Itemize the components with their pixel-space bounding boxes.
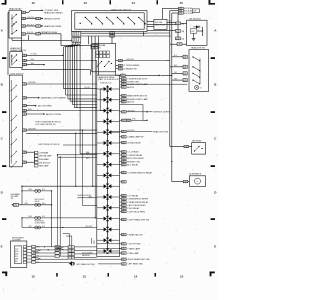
dimmer pin 3 bbox=[22, 63, 26, 65]
svg-text:BLK: BLK bbox=[174, 55, 177, 57]
svg-text:4: 4 bbox=[122, 172, 123, 174]
svg-text:1: 1 bbox=[72, 251, 73, 253]
wire row 131.5 bbox=[110, 131, 122, 133]
relay K1 contact c bbox=[11, 33, 12, 34]
svg-text:4: 4 bbox=[176, 23, 177, 25]
svg-text:C2 TURN FLASHER: C2 TURN FLASHER bbox=[123, 64, 140, 67]
svg-text:1: 1 bbox=[124, 259, 125, 261]
right switch contact 1 bbox=[192, 56, 193, 57]
connector C100 row1 bbox=[72, 32, 81, 37]
svg-text:13: 13 bbox=[83, 275, 87, 279]
svg-text:1: 1 bbox=[121, 65, 122, 67]
wire group vertical bbox=[33, 152, 35, 164]
wire bottom row 1 bbox=[74, 258, 121, 260]
svg-text:C PARK LAMP: C PARK LAMP bbox=[127, 247, 141, 250]
wire y45.6 bbox=[61, 45, 91, 47]
svg-text:1: 1 bbox=[72, 254, 73, 256]
fuse block fuse 4 bbox=[104, 119, 107, 123]
wire x98 drop to fuse block bbox=[97, 36, 99, 75]
svg-text:GRN-WHT: GRN-WHT bbox=[28, 129, 36, 131]
svg-text:4: 4 bbox=[183, 74, 184, 76]
svg-text:4: 4 bbox=[122, 234, 123, 236]
wire into right switch b bbox=[170, 66, 183, 68]
fuse block fuse 1 bbox=[104, 87, 107, 91]
svg-text:4: 4 bbox=[122, 102, 123, 104]
svg-text:14: 14 bbox=[132, 1, 136, 5]
wire vert x22 AB bbox=[21, 186, 23, 205]
svg-text:HEAD RELAY: HEAD RELAY bbox=[9, 7, 22, 10]
svg-text:4: 4 bbox=[122, 152, 123, 154]
left edge dash bbox=[2, 57, 6, 59]
wire relay pin3 bbox=[26, 25, 36, 27]
wire dimmer pin1 long right bbox=[26, 54, 62, 56]
wire note to fuses bbox=[167, 21, 176, 23]
left edge dash bbox=[2, 218, 6, 220]
wire y40 bus bbox=[28, 35, 30, 40]
dimmer contact bbox=[11, 55, 13, 66]
wire into cluster v2 bbox=[93, 241, 95, 244]
svg-text:1: 1 bbox=[124, 182, 125, 184]
svg-text:1: 1 bbox=[124, 102, 125, 104]
turn signal contacts bbox=[96, 66, 97, 67]
wire fuse block right row y164.7 bbox=[122, 164, 127, 166]
svg-text:14: 14 bbox=[134, 275, 138, 279]
wire vertical right bus b bbox=[171, 13, 173, 182]
svg-text:C8 TAIL RELAY: C8 TAIL RELAY bbox=[127, 141, 141, 144]
wire to T1 bbox=[163, 7, 179, 9]
light switch pin r7 bbox=[22, 151, 26, 153]
svg-text:4: 4 bbox=[184, 181, 185, 183]
wire row 120.3 bbox=[122, 119, 127, 121]
fuse row T2 pins bbox=[179, 10, 184, 12]
svg-text:GRN: GRN bbox=[29, 189, 32, 191]
svg-text:4: 4 bbox=[23, 64, 24, 66]
right switch pin b bbox=[183, 65, 187, 68]
fuse block fuse 7 bbox=[104, 152, 107, 156]
svg-text:4: 4 bbox=[119, 65, 120, 67]
svg-text:1: 1 bbox=[124, 253, 125, 255]
right edge dash bbox=[211, 165, 215, 167]
svg-text:1: 1 bbox=[124, 131, 125, 133]
light switch contacts bbox=[10, 80, 12, 164]
wire row 153.8 bbox=[80, 153, 97, 155]
wire row 197.8 bbox=[78, 197, 97, 199]
svg-text:4: 4 bbox=[122, 87, 123, 89]
svg-text:LEFT PARK GND: LEFT PARK GND bbox=[128, 263, 143, 266]
top-left corner crop mark bbox=[2, 3, 7, 5]
wire cross y30.6 bbox=[147, 30, 176, 32]
svg-text:4: 4 bbox=[122, 244, 123, 246]
svg-text:FUSE BLOCK: FUSE BLOCK bbox=[100, 83, 112, 85]
svg-text:4: 4 bbox=[23, 84, 24, 86]
svg-text:1: 1 bbox=[24, 12, 25, 14]
svg-text:GRN: GRN bbox=[89, 196, 92, 198]
svg-text:1: 1 bbox=[72, 247, 73, 249]
svg-text:4: 4 bbox=[22, 12, 23, 14]
wire fuse bus bbox=[177, 14, 179, 22]
tail relay contact bbox=[194, 150, 195, 151]
svg-text:4: 4 bbox=[22, 34, 23, 36]
svg-text:12: 12 bbox=[32, 275, 36, 279]
svg-text:4: 4 bbox=[122, 211, 123, 213]
wire cross y24.6 bbox=[147, 24, 176, 26]
svg-text:1: 1 bbox=[178, 38, 179, 40]
scan speckle background texture bbox=[1, 1, 217, 298]
wire dim long drop bbox=[90, 70, 92, 75]
fuse block fuse 11 bbox=[104, 195, 107, 199]
wire into right switch a bbox=[172, 56, 183, 58]
wire dimmer bottom long bbox=[21, 68, 23, 70]
wire vert x60.2 bbox=[59, 157, 61, 256]
svg-text:RIGHT HEADLIGHT GND: RIGHT HEADLIGHT GND bbox=[128, 258, 151, 261]
svg-text:1: 1 bbox=[25, 114, 26, 116]
wire fuse block right row y202.0 bbox=[122, 201, 127, 203]
svg-text:4: 4 bbox=[183, 57, 184, 59]
wire bottom row 2 bbox=[98, 263, 122, 265]
fuse block FB box bbox=[97, 75, 120, 256]
svg-text:C WINDSHIELD WIPER: C WINDSHIELD WIPER bbox=[127, 199, 149, 201]
svg-text:YEL-BLK: YEL-BLK bbox=[84, 87, 91, 89]
svg-text:RED-BLK: RED-BLK bbox=[27, 24, 35, 26]
wire fuse block right row y84.2 bbox=[122, 83, 127, 85]
svg-text:ACC RELAY: ACC RELAY bbox=[127, 164, 139, 167]
svg-text:ENGINE COMPT LAMP: ENGINE COMPT LAMP bbox=[127, 98, 148, 101]
svg-text:4: 4 bbox=[122, 205, 123, 207]
fuse block fuse 8 bbox=[104, 163, 107, 167]
wire fuse block right row y172.6 bbox=[122, 171, 127, 173]
svg-text:PARKING LIGHTS: PARKING LIGHTS bbox=[44, 17, 60, 20]
svg-text:1: 1 bbox=[186, 80, 187, 82]
light switch pin r2 bbox=[22, 97, 26, 99]
svg-text:4: 4 bbox=[183, 80, 184, 82]
svg-text:4: 4 bbox=[122, 208, 123, 210]
wire cross diag a bbox=[44, 246, 68, 248]
svg-text:C 1-2 RELAY: C 1-2 RELAY bbox=[127, 151, 139, 154]
svg-text:1: 1 bbox=[124, 244, 125, 246]
cluster wire row3 bbox=[36, 252, 69, 254]
svg-text:1: 1 bbox=[187, 146, 188, 148]
svg-text:1: 1 bbox=[186, 74, 187, 76]
headlight switch S1 inner box bbox=[75, 13, 144, 29]
svg-text:BODY DRL RELAY: BODY DRL RELAY bbox=[127, 157, 144, 160]
svg-text:HEADLIGHT SWITCH: HEADLIGHT SWITCH bbox=[111, 8, 131, 11]
svg-text:C ACC RELAY FEED: C ACC RELAY FEED bbox=[127, 204, 146, 207]
wire into cluster v4 bbox=[71, 236, 73, 246]
svg-text:1: 1 bbox=[24, 34, 25, 36]
svg-text:1: 1 bbox=[124, 248, 125, 250]
bottom connector cluster bbox=[68, 246, 71, 249]
svg-text:1: 1 bbox=[25, 152, 26, 154]
cluster inner connector bbox=[14, 246, 21, 264]
right switch rail bbox=[199, 59, 201, 85]
svg-text:1: 1 bbox=[124, 142, 125, 144]
svg-text:(PART OF FUSE BLOCK): (PART OF FUSE BLOCK) bbox=[98, 78, 119, 81]
svg-text:BLK-YEL: BLK-YEL bbox=[27, 32, 34, 34]
wire row 154.8 bbox=[58, 154, 97, 156]
svg-text:C LEFT BULB FEED: C LEFT BULB FEED bbox=[127, 211, 146, 213]
left edge dash bbox=[2, 165, 6, 167]
svg-text:GRN-WHT: GRN-WHT bbox=[126, 59, 134, 61]
svg-text:1: 1 bbox=[124, 120, 125, 122]
svg-text:GRN-RED: GRN-RED bbox=[127, 110, 135, 112]
svg-text:4: 4 bbox=[122, 112, 123, 114]
wire fuse block right row y78.7 bbox=[122, 78, 127, 80]
fuse block fuse 14 bbox=[104, 227, 107, 231]
svg-text:1: 1 bbox=[124, 112, 125, 114]
svg-text:4: 4 bbox=[122, 195, 123, 197]
svg-text:3: 3 bbox=[68, 251, 69, 253]
svg-text:1: 1 bbox=[124, 208, 125, 210]
relay K1 rail bbox=[11, 15, 13, 35]
headlight switch contacts bbox=[80, 23, 81, 24]
fuse row T3 pins bbox=[179, 12, 184, 14]
fuse block fuse 15 bbox=[104, 238, 107, 242]
svg-text:E: E bbox=[214, 244, 216, 248]
svg-text:GRN-RED: GRN-RED bbox=[27, 17, 35, 19]
wire fuse block right row y234.6 bbox=[122, 233, 127, 235]
wire fuse block right row y205.2 bbox=[122, 204, 127, 206]
svg-text:4: 4 bbox=[23, 98, 24, 100]
svg-text:4: 4 bbox=[122, 253, 123, 255]
svg-text:1: 1 bbox=[180, 44, 181, 46]
svg-text:GRY: GRY bbox=[29, 226, 32, 228]
svg-text:4: 4 bbox=[122, 182, 123, 184]
relay K1 pin 3 bbox=[22, 25, 26, 27]
wire fuse block right row y181.8 bbox=[122, 181, 127, 183]
svg-text:DASHBOARD LIGHT DIMMING: DASHBOARD LIGHT DIMMING bbox=[41, 97, 67, 100]
svg-text:3: 3 bbox=[68, 258, 69, 260]
svg-text:GRN: GRN bbox=[29, 216, 32, 218]
svg-text:BODY WIRING: BODY WIRING bbox=[82, 253, 94, 255]
wire row 111.8 bbox=[122, 111, 127, 113]
fuse block fuse 10 bbox=[104, 184, 107, 188]
cluster pin column 2 bbox=[32, 245, 36, 247]
wire TS bottom feed bbox=[115, 72, 117, 76]
svg-text:4: 4 bbox=[121, 75, 122, 77]
svg-text:1: 1 bbox=[124, 205, 125, 207]
wire relay pin2 bbox=[26, 18, 36, 20]
svg-text:1: 1 bbox=[24, 26, 25, 28]
wire fuse block right row y253.0 bbox=[122, 252, 127, 254]
dimmer pin 2 bbox=[22, 59, 26, 61]
svg-text:4: 4 bbox=[122, 264, 123, 266]
wire TS row1 long bbox=[122, 60, 166, 62]
wire F1 to drl bbox=[181, 22, 187, 24]
svg-text:1: 1 bbox=[77, 35, 78, 37]
svg-text:1: 1 bbox=[25, 98, 26, 100]
wire left margin bbox=[7, 12, 9, 75]
svg-text:1: 1 bbox=[186, 181, 187, 183]
wire pin4 drop bbox=[60, 34, 62, 41]
svg-text:AUX/13: AUX/13 bbox=[127, 86, 134, 89]
svg-text:ALTERNATOR: ALTERNATOR bbox=[189, 173, 201, 176]
wire into cluster v1 bbox=[91, 238, 93, 244]
dimmer switch S2 box bbox=[10, 52, 23, 68]
wire vert x51.5 bbox=[51, 191, 53, 247]
svg-text:1: 1 bbox=[25, 64, 26, 66]
wire fuse block right row y211.5 bbox=[122, 210, 127, 212]
headlight switch S1 outer box bbox=[72, 11, 148, 32]
connector group left bbox=[34, 151, 38, 154]
svg-text:1: 1 bbox=[124, 152, 125, 154]
svg-text:1: 1 bbox=[39, 18, 40, 20]
svg-text:REAR WIPER MOTOR: REAR WIPER MOTOR bbox=[127, 95, 148, 98]
svg-text:C IGN RELAY: C IGN RELAY bbox=[127, 207, 140, 210]
wire dimmer pin2 right bbox=[26, 60, 96, 62]
svg-text:BACKUP SYSTEM: BACKUP SYSTEM bbox=[46, 113, 61, 116]
svg-text:C POWER WINDOW RELAY: C POWER WINDOW RELAY bbox=[127, 171, 153, 174]
instrument cluster box bbox=[10, 241, 26, 268]
cluster wire row5 bbox=[36, 258, 69, 260]
right switch lamp bbox=[195, 85, 199, 89]
svg-text:3: 3 bbox=[68, 254, 69, 256]
svg-text:3: 3 bbox=[68, 247, 69, 249]
svg-text:1: 1 bbox=[124, 165, 125, 167]
light switch pin r5 bbox=[22, 113, 26, 115]
wire note bottom bbox=[147, 21, 154, 23]
svg-text:C HIGH MOUNT STOP: C HIGH MOUNT STOP bbox=[127, 79, 148, 81]
wire fuse block right row y161.5 bbox=[122, 160, 127, 162]
right edge dash bbox=[211, 57, 215, 59]
wire relay pin1 to right headlight bbox=[26, 11, 29, 13]
wire row B bbox=[19, 204, 52, 206]
svg-text:C2 HAZARD SW: C2 HAZARD SW bbox=[123, 67, 137, 70]
wire junction block row bbox=[63, 144, 97, 146]
relay K1 pin 4 bbox=[22, 33, 26, 35]
svg-text:GRN: GRN bbox=[174, 79, 177, 81]
right edge dash bbox=[211, 111, 215, 113]
wire relay pin4 to junction bbox=[26, 33, 36, 35]
wire fuse block right row y155.0 bbox=[122, 154, 127, 156]
wire fuse block right row y87.0 bbox=[122, 86, 127, 88]
note box w/o drl bbox=[154, 19, 167, 29]
svg-text:1: 1 bbox=[124, 234, 125, 236]
svg-text:GRN: GRN bbox=[25, 203, 28, 205]
relay K1 contact b bbox=[11, 25, 12, 26]
light switch pin r6 bbox=[22, 129, 26, 131]
wire cross y33 bbox=[147, 32, 170, 34]
svg-text:JUNCTION BLOCK (FIG 8): JUNCTION BLOCK (FIG 8) bbox=[38, 144, 60, 146]
top edge tick bbox=[110, 0, 112, 4]
svg-text:DRL: DRL bbox=[191, 31, 194, 33]
fuse F1 bbox=[176, 22, 181, 25]
svg-text:4: 4 bbox=[122, 142, 123, 144]
svg-text:DRL MODULE: DRL MODULE bbox=[39, 162, 51, 164]
fuse row T1 pins bbox=[179, 7, 184, 9]
left edge dash bbox=[2, 111, 6, 113]
svg-text:AUX/13: AUX/13 bbox=[127, 101, 134, 104]
wire fuse block right row y208.3 bbox=[122, 207, 127, 209]
wire fuse block right row y158.2 bbox=[122, 157, 127, 159]
svg-text:ALTERNATOR RELAY: ALTERNATOR RELAY bbox=[39, 31, 59, 34]
svg-text:C REAR WIPER RELAY: C REAR WIPER RELAY bbox=[127, 201, 149, 204]
top edge tick bbox=[62, 0, 64, 4]
svg-text:FOG LIGHT SW (FIG 19): FOG LIGHT SW (FIG 19) bbox=[36, 124, 56, 126]
svg-text:C REAR TAIL SW: C REAR TAIL SW bbox=[127, 233, 143, 236]
svg-text:C WIPER RELAY: C WIPER RELAY bbox=[127, 154, 143, 157]
svg-text:4: 4 bbox=[177, 44, 178, 46]
svg-text:GRN-RED: GRN-RED bbox=[28, 82, 37, 84]
wire fuse block right row y136.8 bbox=[122, 136, 127, 138]
tail relay K2 box bbox=[192, 143, 206, 155]
svg-text:1: 1 bbox=[72, 258, 73, 260]
drl inner box bbox=[191, 29, 197, 34]
svg-text:CLUSTER: CLUSTER bbox=[12, 240, 21, 242]
svg-text:TAIL RELAY: TAIL RELAY bbox=[192, 140, 203, 143]
fuse block fuse 3 bbox=[104, 109, 107, 113]
bottom edge tick bbox=[108, 273, 110, 277]
svg-text:13: 13 bbox=[84, 1, 88, 5]
svg-text:HIGH BEAM: HIGH BEAM bbox=[39, 158, 49, 161]
bulb socket D bbox=[35, 226, 38, 229]
svg-text:4: 4 bbox=[122, 199, 123, 201]
wire fuse block right row y219.4 bbox=[122, 218, 127, 220]
svg-text:4: 4 bbox=[122, 202, 123, 204]
right switch contact 4 bbox=[192, 79, 193, 80]
svg-text:4: 4 bbox=[122, 137, 123, 139]
cluster pin column bbox=[23, 246, 26, 248]
wire into right switch c bbox=[172, 72, 183, 74]
svg-text:4: 4 bbox=[176, 31, 177, 33]
indicator connector bbox=[11, 204, 13, 206]
wire long vert x95.2 bbox=[94, 49, 96, 218]
light switch pin r4 bbox=[22, 109, 26, 111]
svg-text:TAIL LIGHT FEED: TAIL LIGHT FEED bbox=[38, 105, 53, 108]
wire into cluster v3 bbox=[68, 234, 70, 246]
svg-text:4: 4 bbox=[183, 67, 184, 69]
svg-text:4: 4 bbox=[23, 152, 24, 154]
relay K1 contact a bbox=[11, 18, 12, 19]
light switch pin r3 bbox=[22, 104, 26, 106]
wire row 157.2 bbox=[58, 156, 97, 158]
svg-text:4: 4 bbox=[122, 248, 123, 250]
svg-text:HEADLIGHT SW: HEADLIGHT SW bbox=[191, 47, 205, 50]
svg-text:4: 4 bbox=[36, 34, 37, 36]
svg-text:1: 1 bbox=[124, 137, 125, 139]
svg-text:C8: C8 bbox=[200, 87, 202, 89]
svg-text:1: 1 bbox=[77, 41, 78, 43]
turn signal pin row2 bbox=[118, 64, 122, 66]
svg-text:4: 4 bbox=[22, 18, 23, 20]
svg-text:4: 4 bbox=[122, 120, 123, 122]
wire fuse block right row y198.8 bbox=[122, 198, 127, 200]
wire row A bbox=[22, 190, 52, 192]
top edge tick bbox=[157, 0, 159, 4]
relay K1 box bbox=[9, 10, 22, 38]
svg-text:4: 4 bbox=[119, 60, 120, 62]
turn signal switch S3 box bbox=[92, 44, 116, 72]
svg-text:4: 4 bbox=[23, 162, 24, 164]
wire bus row y36.4 bbox=[81, 35, 147, 37]
svg-text:1: 1 bbox=[124, 172, 125, 174]
svg-text:4: 4 bbox=[122, 165, 123, 167]
svg-text:4: 4 bbox=[23, 114, 24, 116]
svg-text:1: 1 bbox=[124, 195, 125, 197]
svg-text:4: 4 bbox=[23, 105, 24, 107]
svg-text:4: 4 bbox=[119, 69, 120, 71]
svg-text:1: 1 bbox=[25, 130, 26, 132]
drl ground G1 bbox=[193, 37, 195, 39]
svg-text:C LEFT HEADLIGHT SW: C LEFT HEADLIGHT SW bbox=[127, 218, 149, 221]
wire bus to fuse row mid bbox=[170, 43, 177, 45]
svg-text:1: 1 bbox=[178, 23, 179, 25]
svg-text:4: 4 bbox=[127, 120, 128, 122]
wire into right switch d bbox=[172, 79, 183, 81]
wire row 133 bbox=[26, 132, 97, 134]
svg-text:ENGINE COMPT LAMP: ENGINE COMPT LAMP bbox=[127, 83, 148, 86]
wire cluster row cross 1 bbox=[97, 243, 122, 245]
wire fuse block right row y98.9 bbox=[122, 98, 127, 100]
